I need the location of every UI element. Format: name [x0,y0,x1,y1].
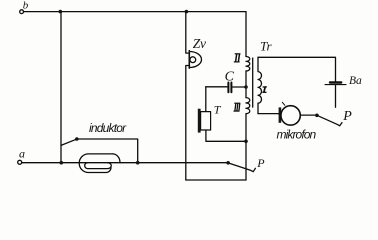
microphone [279,107,282,122]
wire a rail [22,162,228,164]
wire winding II to C node [245,71,247,98]
node T junction [244,140,248,144]
transformer winding I [258,57,262,113]
wire battery down [335,85,337,107]
node bell-branch top junction [185,10,189,14]
capacitor wire left [206,86,228,88]
receiver T [198,109,201,133]
svg-text:Ba: Ba [349,75,362,87]
bell Zv [188,51,190,68]
wire top corner down to winding II [245,12,247,57]
terminal b [20,10,24,14]
terminal a [18,160,22,164]
svg-text:C: C [225,69,235,84]
wire left shunt vertical [60,12,62,163]
node blade contact [75,137,79,141]
wire winding I bottom to mic [258,113,279,116]
svg-text:mikrofon: mikrofon [277,128,317,142]
wire T bottom [206,130,246,141]
transformer winding II [246,57,250,72]
wire top b rail [24,11,246,13]
wire winding I top to battery [258,57,336,81]
node C junction [244,85,248,89]
wire bell branch upper [186,12,190,54]
label III (winding) [234,103,241,111]
microphone diaphragm tick [282,102,285,105]
svg-text:a: a [19,147,25,161]
wire winding III down [245,114,247,180]
induktor loop exit curve [113,154,121,163]
node shunt-drop junction [136,161,140,165]
wire C corner to receiver T [205,87,207,112]
node top-shunt junction [59,10,63,14]
switch blade at induktor [61,139,77,145]
svg-text:P: P [256,156,265,170]
svg-text:P: P [342,109,352,124]
wire shunt top path [77,139,138,163]
wire bell branch lower [186,66,190,181]
wire mic to pivot [300,114,317,116]
transformer core [252,58,254,107]
induktor loop outer [79,154,112,173]
node a-wire end pivot [226,161,230,165]
wire bottom rail [186,179,246,181]
label II (winding) [234,54,241,62]
induktor loop inner [85,163,112,169]
capacitor wire right [233,86,247,88]
capacitor C [227,83,229,93]
battery Ba [330,81,341,83]
transformer winding III [246,98,250,114]
switch P lower blade [228,163,255,172]
node mic pivot [315,114,319,118]
svg-text:T: T [214,102,222,116]
svg-text:b: b [23,0,29,12]
svg-text:Tr: Tr [260,39,273,54]
label I (winding) [262,87,267,93]
svg-text:Zv: Zv [193,36,206,51]
svg-text:induktor: induktor [89,121,127,135]
switch P right blade [317,115,342,126]
node a-wire shunt junction [60,161,64,165]
